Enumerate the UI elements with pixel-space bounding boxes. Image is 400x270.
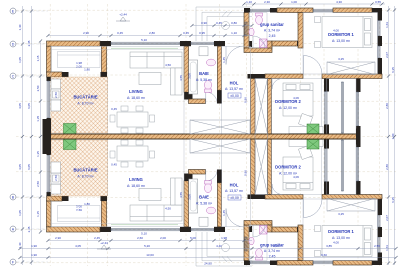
party wall edge lines bbox=[47, 134, 359, 139]
svg-text:BAIE: BAIE bbox=[199, 195, 209, 200]
closet wall vertical bbox=[267, 41, 272, 48]
kitchen sink bbox=[53, 91, 60, 98]
coffee table bbox=[139, 189, 161, 201]
dormitor2 plant green bbox=[307, 124, 319, 134]
elevation marker bottom hol bbox=[228, 195, 241, 200]
svg-text:2,30: 2,30 bbox=[264, 0, 270, 4]
svg-text:A: 3,74 m²: A: 3,74 m² bbox=[264, 29, 281, 33]
party wall between units bbox=[47, 134, 359, 139]
living-bath wall bbox=[184, 46, 189, 92]
svg-text:A: 18,60 m²: A: 18,60 m² bbox=[127, 184, 146, 188]
grid axis bubbles bbox=[10, 8, 48, 14]
kitchen tiled floor bbox=[51, 77, 108, 133]
svg-text:3,25: 3,25 bbox=[338, 57, 344, 61]
svg-text:A: 3,74 m²: A: 3,74 m² bbox=[264, 249, 281, 253]
post at entry bbox=[214, 227, 225, 232]
svg-text:0,55: 0,55 bbox=[375, 0, 381, 4]
svg-text:2,00: 2,00 bbox=[76, 204, 82, 208]
left wall post lower bbox=[47, 118, 52, 134]
terrace divider glazing bbox=[341, 82, 343, 133]
svg-text:+2,44: +2,44 bbox=[100, 241, 108, 245]
living inner offset line bbox=[51, 223, 184, 225]
bath top window bbox=[191, 42, 214, 44]
post entry east bbox=[244, 41, 252, 47]
dormitor2 east window bbox=[325, 149, 327, 182]
svg-text:LIVING: LIVING bbox=[129, 177, 143, 182]
living room outline bbox=[51, 139, 184, 227]
svg-text:1,80: 1,80 bbox=[84, 68, 90, 72]
dining table bbox=[117, 146, 148, 161]
svg-text:2,00: 2,00 bbox=[76, 65, 82, 69]
curtain line bbox=[111, 47, 178, 49]
svg-text:1,15: 1,15 bbox=[36, 55, 40, 61]
terrace east post lower bbox=[356, 126, 361, 134]
svg-text:5,10: 5,10 bbox=[141, 38, 147, 42]
kitchen counter bbox=[51, 162, 61, 194]
dormitor1 bed bbox=[322, 17, 372, 48]
svg-text:0,45: 0,45 bbox=[216, 21, 222, 25]
party wall east post bbox=[356, 129, 361, 145]
grup sanitar top window bbox=[250, 262, 270, 264]
svg-text:1,35: 1,35 bbox=[36, 116, 40, 122]
bath door arc bbox=[206, 92, 217, 104]
svg-text:2,90: 2,90 bbox=[55, 236, 61, 240]
svg-text:2,80: 2,80 bbox=[385, 103, 389, 109]
post top wall left-block bbox=[100, 41, 111, 46]
dormitor1 nightstands bbox=[315, 226, 321, 257]
NE top wall east segment bbox=[333, 8, 372, 13]
void X box lower bbox=[190, 139, 250, 153]
dormitor1 balcony X box bbox=[327, 62, 375, 75]
bath washer bbox=[199, 47, 208, 56]
svg-text:5,00: 5,00 bbox=[190, 236, 196, 240]
bathtub bbox=[189, 60, 198, 94]
dormitor2 east post lower bbox=[324, 139, 329, 149]
svg-text:1,63: 1,63 bbox=[385, 245, 389, 251]
porch column circle top bbox=[222, 22, 230, 30]
fridge cross bbox=[64, 124, 77, 135]
kitchen stub post bbox=[62, 196, 69, 201]
stair shaft bbox=[255, 79, 268, 195]
right wall post3 bbox=[378, 58, 383, 79]
small room SE post bbox=[101, 196, 108, 201]
hol east wall bbox=[251, 139, 256, 195]
porch arrow bbox=[222, 256, 232, 262]
svg-text:6,05: 6,05 bbox=[27, 164, 31, 170]
corridor wall post bbox=[297, 41, 303, 46]
corridor wall bbox=[272, 41, 298, 46]
terrace east window bbox=[357, 92, 359, 126]
bath sink bbox=[206, 59, 215, 66]
svg-text:BUCĂTĂRIE: BUCĂTĂRIE bbox=[73, 95, 97, 100]
small room SE post bbox=[101, 72, 108, 77]
grup sanitar outline bbox=[249, 225, 267, 261]
svg-text:5,20: 5,20 bbox=[144, 244, 150, 248]
terrace outline bbox=[327, 139, 357, 195]
grup sanitar toilet bbox=[256, 13, 263, 24]
fridge cross bbox=[64, 139, 77, 150]
svg-text:LIVING: LIVING bbox=[129, 89, 143, 94]
dimension lines left bbox=[23, 6, 41, 265]
svg-text:2,45: 2,45 bbox=[27, 40, 31, 46]
svg-text:4,50: 4,50 bbox=[165, 63, 171, 67]
terrace outline bbox=[327, 79, 357, 135]
kitchen counter bbox=[51, 79, 61, 111]
post NE corner bbox=[372, 261, 382, 266]
svg-text:HOL: HOL bbox=[230, 81, 239, 86]
bath south wall bbox=[189, 170, 206, 175]
dimension lines right bbox=[389, 6, 395, 265]
grup sanitar door arc bbox=[253, 36, 265, 48]
hol east wall bbox=[251, 79, 256, 135]
dormitor2 east window bbox=[325, 92, 327, 125]
kitchen tiled floor bbox=[51, 140, 108, 196]
svg-text:D: D bbox=[12, 42, 15, 46]
kitchen-living dashed boundary bbox=[107, 139, 109, 196]
dormitor2 wardrobe bbox=[289, 127, 323, 134]
dormitor2 desk diamond bbox=[298, 145, 312, 159]
entry door arc bbox=[226, 46, 244, 65]
right wall post1 bbox=[378, 13, 383, 21]
svg-text:1,00: 1,00 bbox=[291, 0, 297, 4]
svg-text:6,35: 6,35 bbox=[391, 197, 395, 203]
dormitor1 east window upper bbox=[378, 237, 380, 253]
svg-text:DORMITOR 1: DORMITOR 1 bbox=[328, 32, 354, 37]
bathtub bbox=[189, 179, 198, 213]
grup sanitar toilet bbox=[256, 249, 263, 260]
svg-text:1,90: 1,90 bbox=[31, 253, 37, 257]
svg-text:0,86: 0,86 bbox=[244, 170, 248, 176]
svg-text:DORMITOR 1: DORMITOR 1 bbox=[328, 229, 354, 234]
svg-text:2,80: 2,80 bbox=[385, 164, 389, 170]
grup sanitar west window bbox=[245, 237, 247, 251]
svg-text:4,55: 4,55 bbox=[179, 75, 183, 81]
svg-text:2,80: 2,80 bbox=[149, 31, 155, 35]
closet wall vertical bbox=[267, 225, 272, 232]
grup sanitar shower bbox=[260, 226, 268, 235]
post NE top wall bbox=[270, 261, 277, 266]
grup sanitar west wall bbox=[244, 225, 249, 261]
svg-text:3,85: 3,85 bbox=[326, 244, 332, 248]
svg-text:HOL: HOL bbox=[230, 183, 239, 188]
dining chairs bbox=[110, 106, 155, 133]
kitchen west window bbox=[47, 81, 49, 118]
kitchen west window bbox=[47, 155, 49, 192]
post at entry bbox=[214, 41, 225, 46]
svg-text:2,00: 2,00 bbox=[160, 236, 166, 240]
svg-text:4,00: 4,00 bbox=[333, 29, 339, 33]
svg-text:4,06: 4,06 bbox=[293, 96, 299, 100]
svg-text:0,90: 0,90 bbox=[201, 21, 207, 25]
balcony south wall bbox=[322, 195, 382, 200]
dormitor2 east post lower bbox=[324, 125, 329, 135]
svg-text:0,95: 0,95 bbox=[199, 31, 205, 35]
left wall post bbox=[47, 77, 52, 81]
bath south wall bbox=[189, 99, 206, 104]
left wall upper bbox=[47, 46, 52, 72]
dormitor2 bed bbox=[283, 83, 313, 116]
dormitor1 east window lower bbox=[378, 215, 380, 227]
svg-text:1,45: 1,45 bbox=[222, 57, 226, 63]
bath sink bbox=[206, 207, 215, 214]
left wall upper bbox=[47, 201, 52, 227]
svg-text:0,45: 0,45 bbox=[111, 107, 117, 111]
porch column circle bottom bbox=[222, 244, 230, 252]
fridge green bbox=[64, 124, 77, 135]
bath washer bbox=[199, 217, 208, 226]
right wall post3 bbox=[378, 195, 383, 216]
dormitor2 west wall bbox=[268, 139, 272, 195]
svg-text:A: 13,57 m²: A: 13,57 m² bbox=[225, 87, 244, 91]
dormitor1 outline bbox=[303, 13, 378, 75]
dining table bbox=[117, 112, 148, 127]
svg-text:2,45: 2,45 bbox=[94, 236, 100, 240]
living top window bbox=[111, 229, 180, 231]
svg-text:1,90: 1,90 bbox=[31, 244, 37, 248]
porch arrow bbox=[222, 11, 232, 17]
svg-text:3,25: 3,25 bbox=[338, 212, 344, 216]
dormitor1 top window bbox=[313, 9, 333, 11]
svg-text:24,90: 24,90 bbox=[204, 262, 212, 266]
post top wall mid bbox=[180, 41, 191, 46]
coffee table bbox=[139, 73, 161, 85]
svg-text:2,45: 2,45 bbox=[269, 34, 276, 38]
grup sanitar sink bbox=[249, 28, 254, 36]
bath top window bbox=[191, 229, 214, 231]
svg-text:1,05: 1,05 bbox=[18, 57, 22, 63]
dormitor2 north wall bbox=[265, 74, 303, 79]
svg-text:1,05: 1,05 bbox=[18, 210, 22, 216]
NE top wall mid segment bbox=[277, 261, 313, 266]
svg-text:A: 8,70 m²: A: 8,70 m² bbox=[77, 102, 94, 106]
svg-text:A: 5,38 m²: A: 5,38 m² bbox=[196, 202, 213, 206]
left wall post bbox=[47, 192, 52, 196]
sofa bbox=[130, 178, 182, 221]
post NE block west end bbox=[244, 261, 250, 266]
small room east wall bbox=[102, 46, 107, 72]
dormitor1 balcony X box bbox=[327, 199, 375, 212]
terrace east post lower bbox=[356, 139, 361, 147]
terrace east window bbox=[357, 147, 359, 181]
dormitor1 west wall bbox=[298, 225, 303, 261]
svg-text:4,05: 4,05 bbox=[18, 103, 22, 109]
svg-text:1,40: 1,40 bbox=[18, 24, 22, 30]
dimension line top bbox=[48, 4, 385, 36]
stair head post bbox=[248, 195, 266, 200]
dormitor2 north wall bbox=[265, 195, 303, 200]
stair head post bbox=[248, 74, 266, 79]
svg-text:2,50: 2,50 bbox=[36, 85, 40, 91]
svg-text:1,15: 1,15 bbox=[36, 211, 40, 217]
grup sanitar outline bbox=[249, 13, 267, 49]
post NE top wall bbox=[270, 8, 277, 13]
grup sanitar top window bbox=[250, 9, 270, 11]
svg-text:2,50: 2,50 bbox=[54, 92, 58, 98]
svg-text:0,86: 0,86 bbox=[244, 97, 248, 103]
dormitor2 outline bbox=[272, 139, 322, 195]
dormitor1 nightstands bbox=[315, 17, 321, 48]
post entry east bbox=[244, 226, 252, 232]
svg-text:BAIE: BAIE bbox=[199, 71, 209, 76]
level marker bottom bbox=[97, 245, 111, 249]
svg-text:1,98: 1,98 bbox=[221, 236, 227, 240]
svg-text:2,90: 2,90 bbox=[83, 31, 89, 35]
svg-text:4,00: 4,00 bbox=[333, 241, 339, 245]
kitchen stub wall bbox=[47, 196, 63, 201]
svg-text:1,63: 1,63 bbox=[385, 22, 389, 28]
dormitor1 top window bbox=[313, 262, 333, 264]
NE top wall east segment bbox=[333, 261, 372, 266]
dormitor1 bed bbox=[322, 226, 372, 257]
kitchen sink bbox=[53, 175, 60, 182]
svg-text:BUCĂTĂRIE: BUCĂTĂRIE bbox=[73, 168, 97, 173]
kitchen-living dashed boundary bbox=[107, 77, 109, 134]
hol outline bbox=[222, 46, 251, 134]
svg-text:4,06: 4,06 bbox=[293, 175, 299, 179]
left dim ticks bbox=[21, 9, 24, 263]
svg-text:A: 13,57 m²: A: 13,57 m² bbox=[225, 189, 244, 193]
svg-text:0,45: 0,45 bbox=[117, 31, 123, 35]
bath-hol wall bbox=[218, 46, 222, 90]
svg-text:2,45: 2,45 bbox=[27, 226, 31, 232]
svg-text:6,35: 6,35 bbox=[391, 67, 395, 73]
dining chairs bbox=[110, 140, 155, 167]
svg-text:0,45: 0,45 bbox=[111, 162, 117, 166]
svg-text:±0,00: ±0,00 bbox=[230, 94, 239, 98]
svg-text:2,07: 2,07 bbox=[385, 52, 389, 58]
dormitor1 door arc bbox=[304, 199, 323, 218]
level marker top bbox=[116, 17, 130, 21]
right dim ticks bbox=[387, 8, 390, 264]
fridge green bbox=[64, 139, 77, 150]
svg-text:5,10: 5,10 bbox=[141, 231, 147, 235]
corridor wall post bbox=[297, 227, 303, 232]
svg-text:4,30: 4,30 bbox=[336, 0, 342, 4]
grup sanitar door arc bbox=[253, 225, 265, 237]
svg-text:1,35: 1,35 bbox=[36, 151, 40, 157]
top wall west segment bbox=[47, 41, 101, 46]
dormitor1 door arc bbox=[304, 56, 323, 75]
grup sanitar west wall bbox=[244, 13, 249, 49]
svg-text:4,55: 4,55 bbox=[179, 192, 183, 198]
dormitor2 west wall bbox=[268, 79, 272, 135]
svg-text:1,40: 1,40 bbox=[18, 242, 22, 248]
svg-text:A: 13,00 m²: A: 13,00 m² bbox=[332, 39, 351, 43]
entry door arc bbox=[226, 209, 244, 228]
small room east wall bbox=[102, 201, 107, 227]
living inner offset line bbox=[51, 49, 184, 51]
bottom dim ticks bbox=[46, 239, 245, 242]
bath toilet bbox=[204, 80, 211, 92]
dormitor1 outline bbox=[303, 199, 378, 261]
right wall post2 bbox=[378, 36, 383, 46]
svg-text:A: 12,00 m²: A: 12,00 m² bbox=[279, 106, 298, 110]
living-bath wall bbox=[184, 181, 189, 227]
elevation marker top hol bbox=[228, 93, 241, 98]
svg-text:A: 13,00 m²: A: 13,00 m² bbox=[332, 236, 351, 240]
dormitor2 door arc bbox=[272, 79, 283, 90]
dormitor2 desk diamond bbox=[298, 113, 312, 127]
top wall west segment bbox=[47, 227, 101, 232]
grup sanitar south wall bbox=[244, 221, 272, 226]
right wall post2 bbox=[378, 227, 383, 237]
svg-text:13,60: 13,60 bbox=[146, 253, 154, 257]
dormitor2 wardrobe bbox=[289, 140, 323, 147]
svg-text:2,60: 2,60 bbox=[137, 236, 143, 240]
living room outline bbox=[51, 46, 184, 134]
post top wall left-block bbox=[100, 227, 111, 232]
grup sanitar south wall bbox=[244, 48, 272, 53]
void X box upper bbox=[190, 120, 250, 134]
svg-text:1,10: 1,10 bbox=[231, 31, 237, 35]
bath-hol wall bbox=[218, 183, 222, 227]
top dim ticks bbox=[242, 2, 383, 5]
grup sanitar west window bbox=[245, 22, 247, 36]
svg-text:+2,44: +2,44 bbox=[119, 13, 127, 17]
bath door arc bbox=[206, 170, 217, 182]
svg-text:2,50: 2,50 bbox=[36, 181, 40, 187]
svg-text:6,05: 6,05 bbox=[27, 103, 31, 109]
post top wall mid bbox=[180, 227, 191, 232]
living-bath wall post bbox=[184, 174, 193, 182]
dormitor1 east window lower bbox=[378, 46, 380, 58]
svg-text:9,60: 9,60 bbox=[321, 253, 327, 257]
kitchen stub wall bbox=[47, 72, 63, 77]
svg-text:3,20: 3,20 bbox=[273, 244, 279, 248]
bath toilet bbox=[204, 181, 211, 193]
svg-text:A: 5,38 m²: A: 5,38 m² bbox=[196, 78, 213, 82]
svg-text:0,45: 0,45 bbox=[183, 31, 189, 35]
chimney block bbox=[43, 119, 52, 154]
dormitor1 west wall bbox=[298, 13, 303, 49]
bath SE post bbox=[217, 170, 222, 184]
grup sanitar shower bbox=[260, 39, 268, 48]
sofa bbox=[130, 52, 182, 95]
terrace east post upper bbox=[356, 79, 361, 93]
svg-text:4,05: 4,05 bbox=[18, 164, 22, 170]
dormitor2 outline bbox=[272, 79, 322, 135]
kitchen stub post bbox=[62, 72, 69, 77]
post NE corner bbox=[372, 8, 382, 13]
svg-text:1,80: 1,80 bbox=[84, 202, 90, 206]
corridor wall bbox=[272, 227, 298, 232]
bath SE post bbox=[217, 90, 222, 104]
curtain line bbox=[111, 224, 178, 226]
svg-text:grup sanitar: grup sanitar bbox=[260, 22, 284, 27]
terrace divider glazing bbox=[341, 140, 343, 191]
svg-text:±0,00: ±0,00 bbox=[230, 196, 239, 200]
balcony south wall bbox=[322, 74, 382, 79]
dormitor2 east post upper bbox=[324, 79, 329, 92]
living-bath wall post bbox=[184, 92, 193, 100]
living top window bbox=[111, 42, 180, 44]
right wall post1 bbox=[378, 253, 383, 261]
dormitor1 east window upper bbox=[378, 21, 380, 37]
svg-text:DORMITOR 2: DORMITOR 2 bbox=[275, 165, 301, 170]
svg-text:2,50: 2,50 bbox=[54, 175, 58, 181]
svg-text:1,10: 1,10 bbox=[246, 0, 252, 4]
svg-text:A: 8,70 m²: A: 8,70 m² bbox=[77, 175, 94, 179]
dormitor2 door arc bbox=[272, 184, 283, 195]
svg-text:0,80: 0,80 bbox=[231, 21, 237, 25]
terrace east post upper bbox=[356, 181, 361, 195]
entry porch steps bbox=[196, 7, 252, 41]
post NE block west end bbox=[244, 8, 250, 13]
svg-text:1,45: 1,45 bbox=[222, 210, 226, 216]
dormitor2 plant green bbox=[307, 140, 319, 150]
grup sanitar sink bbox=[249, 237, 254, 245]
svg-text:3,00: 3,00 bbox=[188, 73, 192, 79]
